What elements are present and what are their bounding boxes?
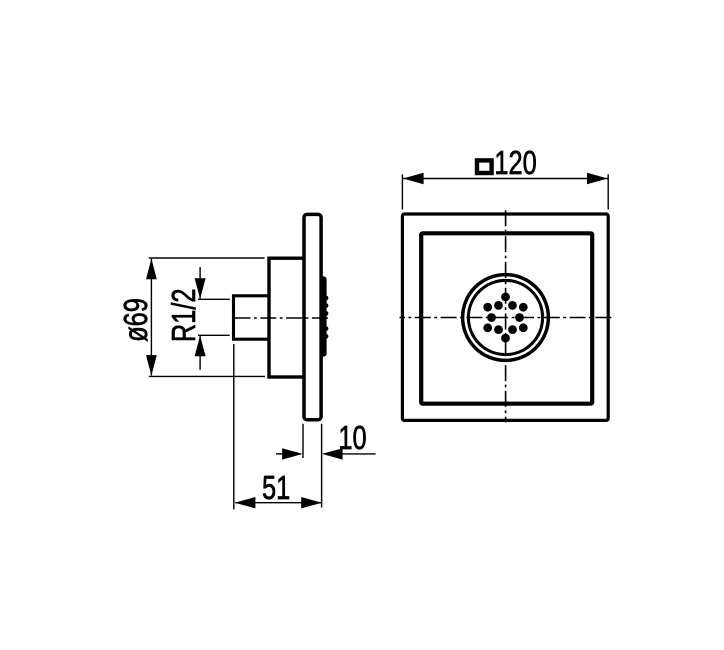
side view: wall plate (seen edge-on) xyxy=(304,214,321,419)
dimension 51: extension line left xyxy=(233,344,235,509)
side view: spray face bump with knurled edge xyxy=(321,276,328,356)
dimension o69: dimension line xyxy=(150,259,152,375)
front view: outer circle of sprayer xyxy=(463,275,549,361)
dimension 10: left arrow (outside, pointing right) xyxy=(276,453,284,455)
front view: horizontal centerline xyxy=(400,317,612,319)
dimension R1/2: extension line bottom xyxy=(198,334,230,336)
front view: nozzle dots (outer hex ring) xyxy=(483,293,527,343)
dimension o69: extension line top xyxy=(149,257,265,259)
side view: body cylinder o69 xyxy=(269,258,304,377)
dimension 120: extension line right xyxy=(607,174,609,209)
dimension 120: arrow left xyxy=(403,173,424,184)
dimension 10: right arrow (outside, pointing left) xyxy=(341,453,376,455)
dimension R1/2: dimension line bottom segment xyxy=(199,336,201,370)
dimension o69: arrow bottom xyxy=(146,355,157,376)
front view: inner square face xyxy=(421,233,592,403)
dimension 51: dimension line xyxy=(235,502,321,504)
svg-text:R1/2: R1/2 xyxy=(166,288,203,342)
side view: threaded stub R1/2 xyxy=(234,296,270,339)
dimension 51: arrow right xyxy=(301,497,322,508)
front view: nozzle dots (inner hex ring) xyxy=(487,301,524,334)
dimension 120: extension line left xyxy=(401,174,403,209)
dimension o69: extension line bottom xyxy=(149,375,265,377)
dimension 51: arrow left xyxy=(235,497,256,508)
dimension 120: dimension line xyxy=(403,178,608,180)
dimension R1/2: extension line top xyxy=(198,298,230,300)
dimension 120: arrow right xyxy=(587,173,608,184)
front view: outer square plate xyxy=(402,214,608,420)
front view: inner circle of sprayer xyxy=(468,280,542,354)
svg-text:120: 120 xyxy=(494,145,536,182)
front view: vertical centerline xyxy=(505,210,507,422)
svg-text:10: 10 xyxy=(338,420,366,457)
dimension o69: arrow top xyxy=(146,259,157,280)
dimension R1/2: arrow top (pointing down) xyxy=(195,278,206,299)
dimension 10: extension line left xyxy=(302,424,304,458)
svg-text:51: 51 xyxy=(262,470,290,507)
side view: horizontal centerline xyxy=(235,317,330,319)
dimension 10: extension line right (shared with 51) xyxy=(321,424,323,508)
dimension 120: square symbol xyxy=(477,160,492,173)
dimension R1/2: arrow bottom (pointing up) xyxy=(195,336,206,357)
dimension R1/2: dimension line top segment xyxy=(199,267,201,299)
svg-text:ø69: ø69 xyxy=(118,298,155,342)
